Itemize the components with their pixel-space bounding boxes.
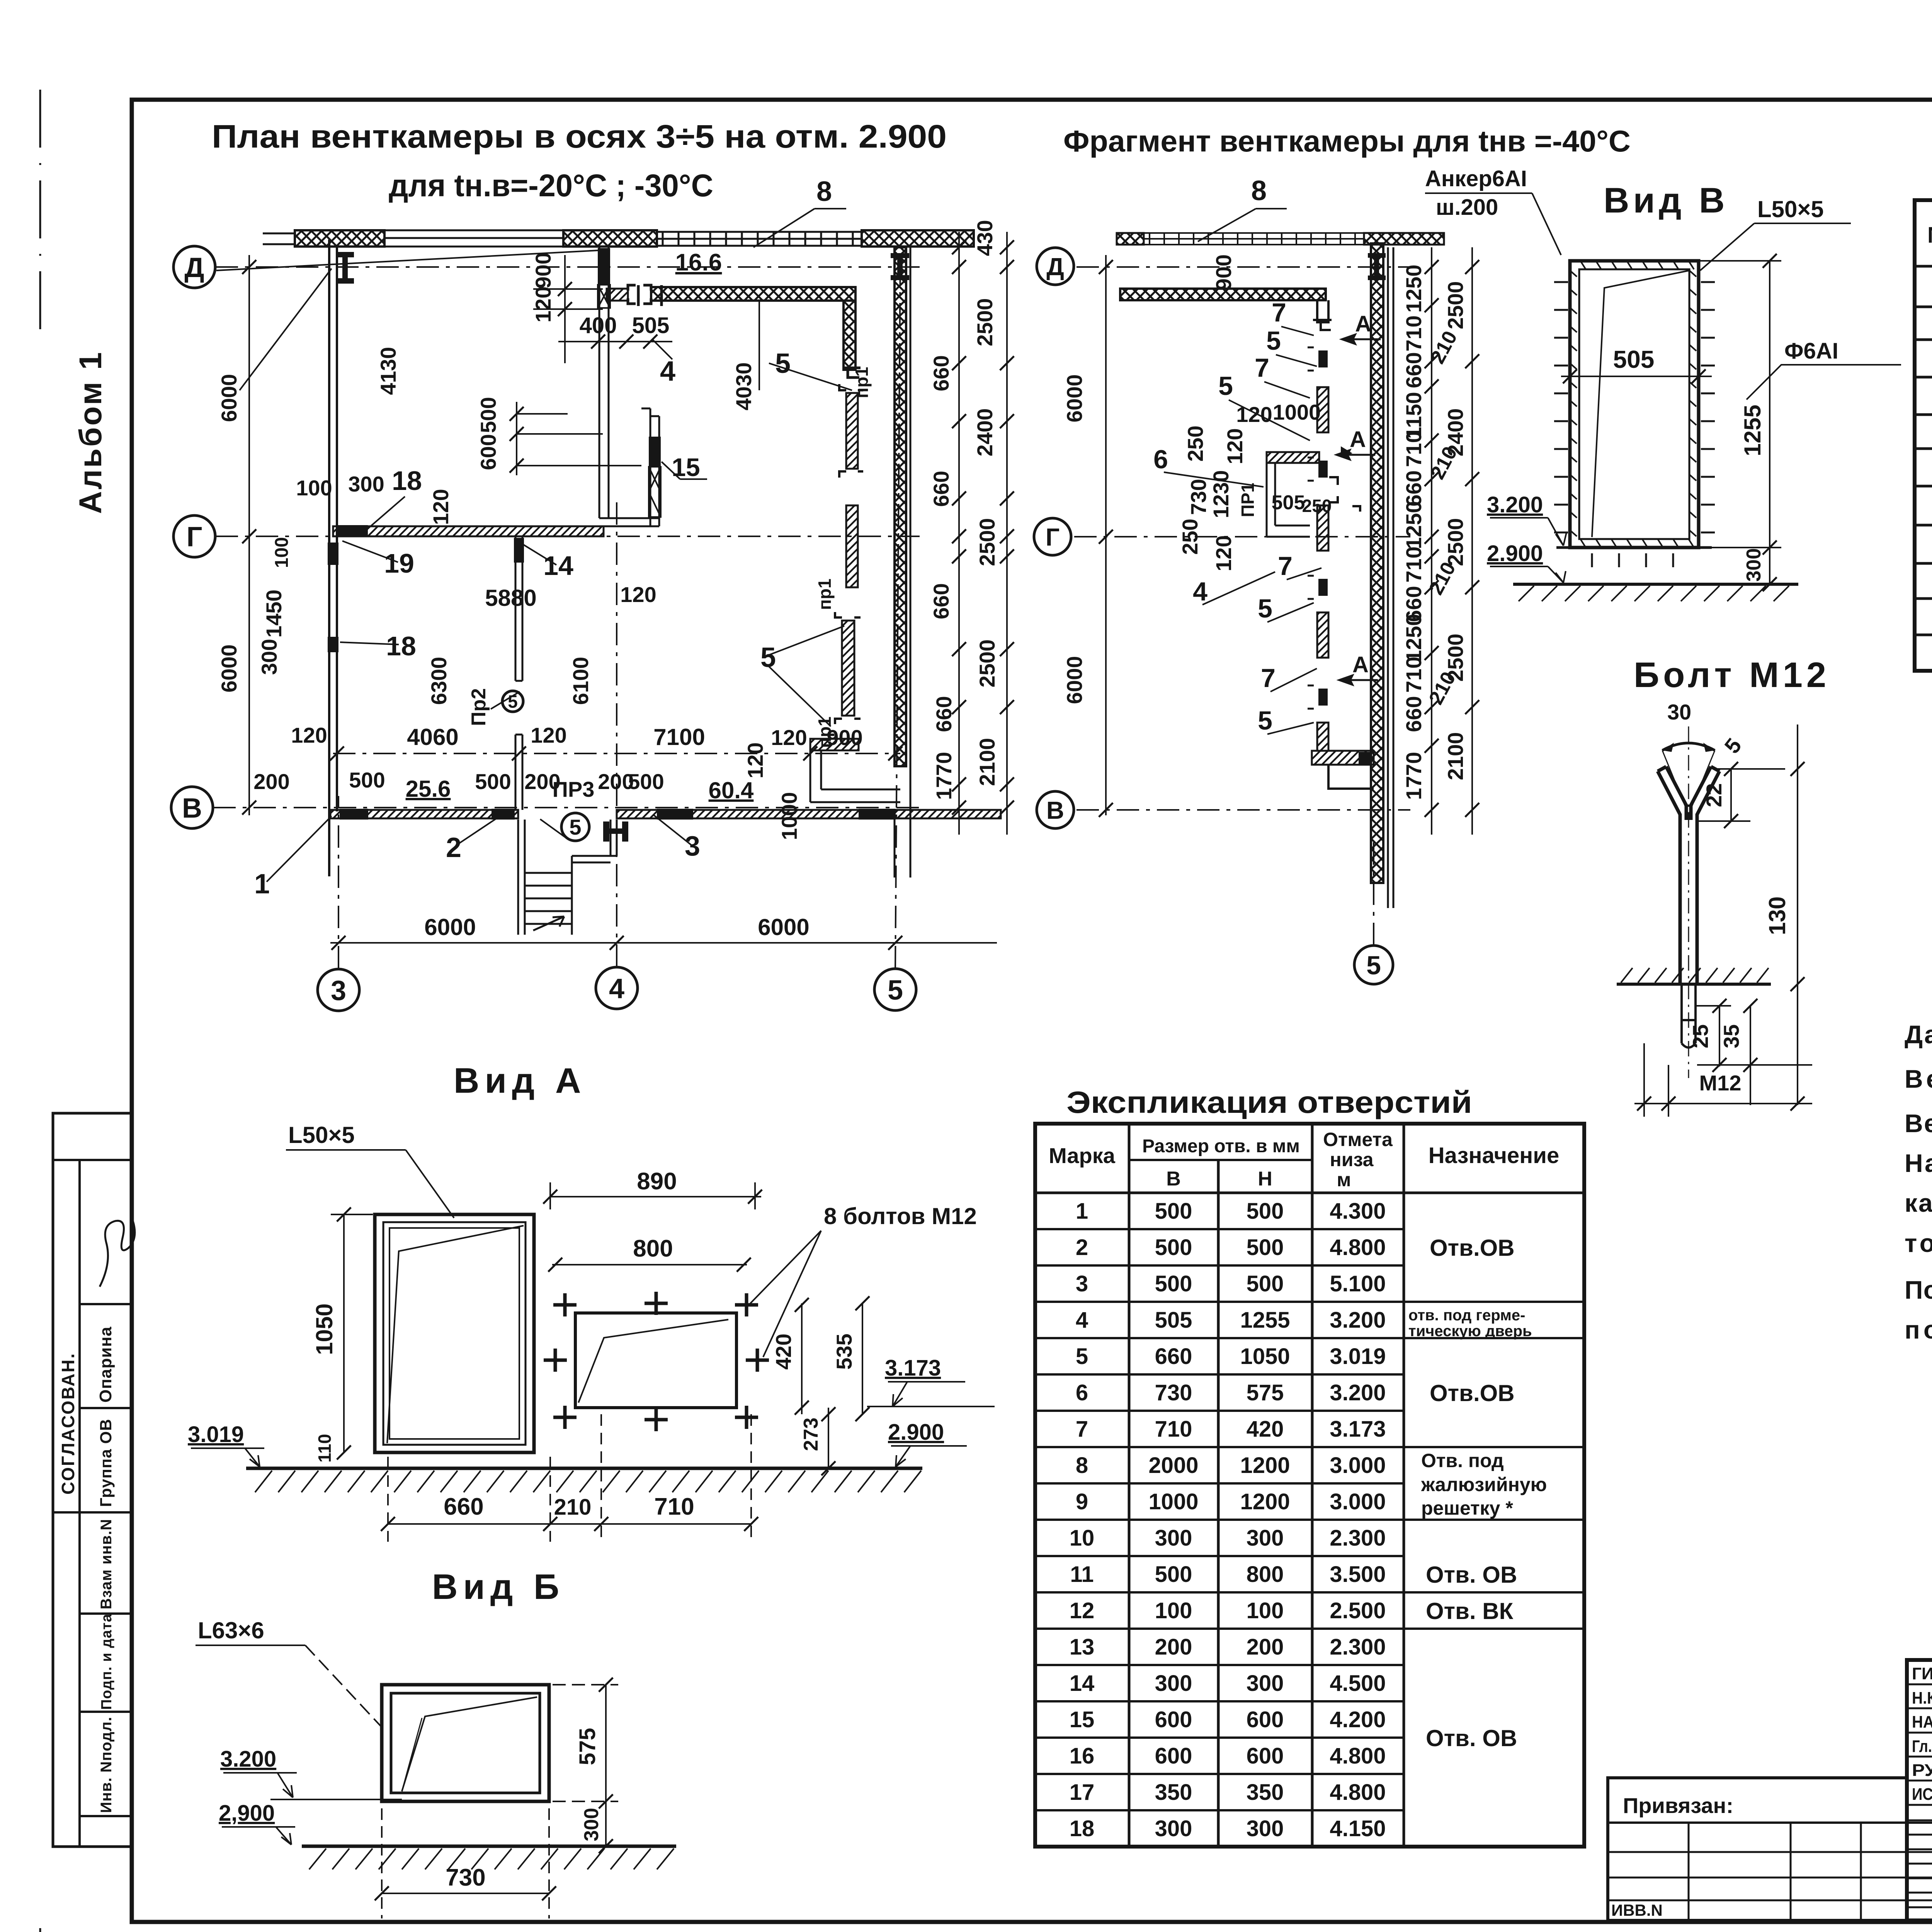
svg-text:890: 890	[637, 1168, 677, 1195]
svg-text:Отв.ОВ: Отв.ОВ	[1430, 1235, 1515, 1261]
axis circle 4	[596, 967, 638, 1009]
svg-text:пр1: пр1	[815, 578, 835, 610]
stairs	[518, 820, 617, 935]
svg-text:500: 500	[475, 769, 511, 794]
top wall louver opening 8	[657, 232, 862, 246]
svg-text:430: 430	[973, 220, 997, 256]
vid B frame	[382, 1685, 549, 1801]
axis circle 5	[874, 969, 916, 1010]
svg-text:РУК ГР.: РУК ГР.	[1912, 1761, 1932, 1780]
svg-text:НАЧ.ОТД: НАЧ.ОТД	[1912, 1713, 1932, 1731]
svg-text:Анкер6АI: Анкер6АI	[1425, 166, 1527, 191]
svg-text:7: 7	[1261, 663, 1276, 693]
svg-text:200: 200	[253, 769, 289, 794]
svg-text:300: 300	[580, 1808, 603, 1842]
svg-text:6000: 6000	[1062, 374, 1087, 423]
svg-text:6000: 6000	[217, 374, 241, 422]
svg-text:35: 35	[1719, 1024, 1743, 1048]
svg-text:1000: 1000	[1273, 400, 1321, 424]
svg-text:7: 7	[1076, 1417, 1088, 1442]
free pier P2	[846, 505, 858, 587]
svg-text:1255: 1255	[1240, 1308, 1290, 1333]
svg-text:120: 120	[531, 723, 566, 747]
frag axis circles	[1037, 248, 1074, 285]
svg-text:Н.КОНТР.: Н.КОНТР.	[1912, 1689, 1932, 1708]
svg-text:Данный лист см. совместно с ли: Данный лист см. совместно с листом 4.	[1905, 1020, 1932, 1049]
svg-text:Отв.ОВ: Отв.ОВ	[1430, 1380, 1515, 1406]
svg-text:3.019: 3.019	[1330, 1344, 1386, 1369]
interior vertical wall W1	[599, 247, 609, 518]
frag right exterior wall	[1371, 243, 1383, 883]
svg-text:Подп. и дата: Подп. и дата	[99, 1614, 115, 1710]
svg-text:3.200: 3.200	[1330, 1380, 1386, 1405]
door jamb bracket right of 505 opening	[643, 285, 662, 306]
svg-text:120: 120	[743, 742, 767, 778]
svg-text:120: 120	[1211, 535, 1236, 571]
frag interior top wall	[1120, 289, 1326, 300]
svg-text:2400: 2400	[973, 408, 997, 457]
vid V 505 dim	[1561, 376, 1712, 377]
svg-text:Ведомость перемычек см. лист 3: Ведомость перемычек см. лист 3.	[1905, 1109, 1932, 1138]
vid B dims 575/300	[605, 1685, 607, 1846]
svg-text:1250: 1250	[1401, 501, 1426, 549]
free pier P1	[846, 393, 858, 469]
svg-text:5: 5	[569, 815, 581, 839]
svg-text:по сетке.: по сетке.	[1905, 1315, 1932, 1344]
svg-text:3: 3	[685, 831, 700, 862]
svg-text:710: 710	[1155, 1417, 1192, 1442]
vid A right dims 420/535/273	[802, 1303, 862, 1468]
vid A ground line	[246, 1467, 922, 1470]
svg-text:3.000: 3.000	[1330, 1489, 1386, 1514]
svg-text:решетку *: решетку *	[1421, 1497, 1513, 1519]
bolt centerline	[1688, 726, 1689, 1078]
interior room top wall (16.6 room)	[651, 287, 855, 301]
svg-text:600: 600	[1155, 1707, 1192, 1732]
svg-text:660: 660	[929, 355, 953, 391]
svg-text:5: 5	[1258, 706, 1272, 735]
vid V 1255 dim	[1769, 261, 1770, 548]
svg-text:Отв. ОВ: Отв. ОВ	[1426, 1725, 1517, 1751]
axis circle G	[173, 515, 215, 557]
svg-text:Размер отв. в мм: Размер отв. в мм	[1142, 1136, 1300, 1156]
svg-text:660: 660	[444, 1493, 483, 1520]
vid V door diagonal	[1592, 270, 1689, 537]
svg-text:16.6: 16.6	[675, 249, 722, 276]
frag mid piers	[1317, 387, 1328, 432]
svg-text:600: 600	[1155, 1743, 1192, 1769]
svg-text:ИВВ.N: ИВВ.N	[1611, 1901, 1663, 1919]
bottom wall on axis V	[330, 810, 518, 818]
svg-text:420: 420	[1247, 1417, 1284, 1442]
small circled 5 markers	[502, 691, 523, 712]
axis circle D	[173, 246, 215, 288]
svg-text:350: 350	[1155, 1780, 1192, 1805]
left wall pier blacks	[328, 543, 338, 652]
svg-text:8: 8	[1076, 1453, 1088, 1478]
svg-text:2100: 2100	[1443, 732, 1468, 781]
svg-text:18: 18	[1070, 1816, 1095, 1841]
svg-text:120: 120	[620, 582, 656, 607]
svg-text:800: 800	[633, 1235, 673, 1262]
svg-text:ках устраиваются из арматурной: ках устраиваются из арматурной стали 10А…	[1905, 1189, 1932, 1217]
svg-text:Взам инв.N: Взам инв.N	[98, 1519, 115, 1609]
svg-text:4: 4	[1076, 1308, 1088, 1333]
svg-text:ш.200: ш.200	[1436, 195, 1498, 220]
vid A big frame	[375, 1214, 534, 1452]
svg-text:1: 1	[1076, 1199, 1088, 1224]
svg-text:отв. под герме-: отв. под герме-	[1408, 1307, 1525, 1324]
frag small lintel squares	[1318, 350, 1328, 367]
vid V 300 dim	[1770, 584, 1797, 585]
interior wall on axis G	[333, 526, 604, 536]
bottom dim line 6000/6000	[330, 942, 997, 944]
vid B diagonal	[402, 1697, 537, 1791]
svg-text:5: 5	[1366, 951, 1381, 980]
svg-text:600: 600	[1247, 1743, 1284, 1769]
svg-text:120: 120	[531, 286, 555, 322]
axis D line	[216, 266, 920, 268]
vid V ground	[1513, 583, 1798, 586]
svg-text:1050: 1050	[1240, 1344, 1290, 1369]
svg-text:2500: 2500	[973, 298, 997, 347]
axis 5 line	[895, 255, 900, 968]
frag axis 5 vertical	[1373, 842, 1374, 945]
svg-text:3.200: 3.200	[1330, 1308, 1386, 1333]
svg-text:5: 5	[1076, 1344, 1088, 1369]
svg-text:710: 710	[1401, 431, 1426, 467]
svg-text:Отв. ВК: Отв. ВК	[1426, 1598, 1514, 1624]
svg-text:ПР3: ПР3	[553, 777, 595, 801]
svg-text:Марка: Марка	[1049, 1143, 1116, 1168]
svg-text:4.150: 4.150	[1330, 1816, 1386, 1841]
svg-text:7100: 7100	[653, 724, 705, 750]
svg-text:Вид В: Вид В	[1604, 181, 1728, 220]
svg-text:3.200: 3.200	[1487, 492, 1543, 517]
svg-text:200: 200	[1155, 1634, 1192, 1660]
svg-text:для tн.в=-20°C ; -30°C: для tн.в=-20°C ; -30°C	[389, 168, 713, 203]
svg-text:2.300: 2.300	[1330, 1634, 1386, 1660]
svg-text:710: 710	[1401, 546, 1426, 582]
svg-text:В: В	[1166, 1168, 1181, 1190]
svg-text:4.800: 4.800	[1330, 1235, 1386, 1260]
svg-text:120: 120	[291, 723, 327, 747]
svg-text:1200: 1200	[1240, 1489, 1290, 1514]
svg-text:Назначение: Назначение	[1429, 1143, 1559, 1168]
svg-text:Группа ОВ: Группа ОВ	[97, 1419, 115, 1507]
7100 dim dash line	[333, 753, 900, 754]
svg-text:Вид А: Вид А	[454, 1061, 586, 1100]
svg-text:300: 300	[1247, 1671, 1284, 1696]
svg-text:2: 2	[1076, 1235, 1088, 1260]
svg-text:500: 500	[1155, 1199, 1192, 1224]
privyazan box	[1608, 1778, 1932, 1920]
W2 wall with pier 15	[641, 408, 659, 526]
svg-text:8: 8	[816, 176, 832, 207]
svg-text:4.800: 4.800	[1330, 1743, 1386, 1769]
svg-text:200: 200	[1247, 1634, 1284, 1660]
svg-text:6000: 6000	[424, 914, 476, 940]
svg-text:575: 575	[575, 1728, 600, 1765]
svg-text:ГИП: ГИП	[1912, 1664, 1932, 1683]
vid A small diagonal	[578, 1320, 728, 1403]
svg-text:6300: 6300	[427, 657, 451, 705]
svg-text:6100: 6100	[568, 657, 593, 705]
svg-text:L50×5: L50×5	[1757, 196, 1824, 222]
svg-text:1770: 1770	[1401, 752, 1426, 800]
svg-text:6000: 6000	[758, 914, 809, 940]
svg-text:1: 1	[254, 869, 270, 900]
svg-text:500: 500	[1247, 1235, 1284, 1260]
svg-text:710: 710	[1401, 656, 1426, 692]
sidebar signature	[100, 1221, 135, 1287]
svg-text:17: 17	[1070, 1780, 1095, 1805]
svg-text:1000: 1000	[1148, 1489, 1198, 1514]
svg-text:5: 5	[1218, 371, 1233, 401]
svg-text:ПР1: ПР1	[1238, 483, 1258, 517]
axis circle 3	[318, 969, 359, 1011]
svg-text:2500: 2500	[975, 518, 999, 566]
svg-text:250: 250	[1178, 519, 1202, 554]
room right return wall	[844, 301, 855, 370]
wall below door PR2	[515, 735, 522, 810]
svg-text:15: 15	[1070, 1707, 1095, 1732]
svg-text:273: 273	[800, 1418, 822, 1451]
svg-text:120: 120	[771, 725, 807, 750]
svg-text:А: А	[1352, 652, 1369, 677]
svg-text:Альбом 1: Альбом 1	[73, 351, 108, 514]
svg-text:3: 3	[331, 975, 346, 1006]
frag left dim line	[1105, 255, 1107, 815]
svg-text:600: 600	[476, 434, 500, 470]
svg-text:5880: 5880	[485, 585, 536, 611]
svg-text:5: 5	[760, 642, 776, 673]
svg-text:Болт М12: Болт М12	[1634, 655, 1830, 695]
svg-text:L50×5: L50×5	[288, 1122, 355, 1148]
svg-text:М12: М12	[1699, 1071, 1742, 1095]
G-level jog connecting W1-W2	[599, 518, 659, 526]
top exterior wall crosshatched right segment	[862, 230, 974, 247]
svg-text:В: В	[1046, 796, 1064, 824]
frag axis V	[1077, 809, 1410, 811]
svg-text:Д: Д	[1046, 253, 1064, 281]
vid A bottom dims 660/210/710	[388, 1523, 751, 1525]
vid V anchor ticks	[1554, 281, 1568, 283]
svg-text:300: 300	[1247, 1526, 1284, 1551]
vid V inner frame	[1579, 269, 1689, 539]
svg-text:505: 505	[632, 313, 670, 338]
svg-text:5: 5	[1266, 326, 1281, 355]
svg-text:Д: Д	[184, 252, 204, 283]
axis 4 line	[616, 502, 617, 967]
svg-text:120: 120	[1223, 428, 1247, 464]
500/600 dim short lines	[517, 402, 641, 475]
svg-text:2.500: 2.500	[1330, 1598, 1386, 1623]
svg-text:2500: 2500	[1443, 518, 1468, 566]
svg-text:250: 250	[1302, 496, 1332, 516]
svg-text:22: 22	[1702, 783, 1726, 807]
svg-text:4: 4	[660, 356, 675, 387]
svg-text:Ф6АI: Ф6АI	[1784, 338, 1838, 364]
threshold H symbol near PR3	[603, 821, 628, 842]
svg-text:900: 900	[531, 252, 555, 288]
svg-text:210: 210	[554, 1495, 592, 1520]
svg-text:1000: 1000	[777, 792, 801, 840]
svg-text:3: 3	[1076, 1271, 1088, 1296]
svg-text:2100: 2100	[975, 738, 999, 786]
svg-text:110: 110	[315, 1434, 335, 1463]
svg-text:Опарина: Опарина	[96, 1327, 115, 1403]
frag axis D	[1077, 266, 1410, 268]
bolt below ground shank	[1682, 985, 1696, 1048]
top wall left thin extension	[263, 233, 295, 244]
leader lines	[216, 209, 852, 882]
frag bottom wall	[1312, 751, 1374, 765]
column I-symbol at D axis	[336, 252, 354, 284]
svg-text:500: 500	[476, 397, 500, 433]
svg-text:3.173: 3.173	[885, 1355, 941, 1381]
svg-text:тическую дверь: тическую дверь	[1408, 1323, 1532, 1340]
svg-text:1230: 1230	[1209, 470, 1233, 519]
svg-text:11: 11	[1070, 1562, 1094, 1587]
svg-text:500: 500	[1155, 1271, 1192, 1296]
svg-text:575: 575	[1247, 1380, 1284, 1405]
axis G line	[216, 536, 920, 537]
svg-text:505: 505	[1272, 492, 1305, 514]
svg-text:300: 300	[1155, 1816, 1192, 1841]
svg-text:8: 8	[1251, 175, 1267, 206]
svg-text:30: 30	[1667, 700, 1691, 724]
svg-text:6000: 6000	[1062, 656, 1087, 704]
svg-text:505: 505	[1155, 1308, 1192, 1333]
frag right dim lines	[1432, 247, 1472, 835]
top exterior wall crosshatched left segment	[295, 230, 384, 247]
svg-text:2,900: 2,900	[219, 1801, 275, 1826]
vid A small frame	[575, 1313, 736, 1408]
svg-text:жалюзийную: жалюзийную	[1421, 1474, 1547, 1495]
frag leader lines	[1164, 327, 1321, 734]
svg-text:6: 6	[1076, 1380, 1088, 1405]
svg-text:10: 10	[1070, 1526, 1095, 1551]
svg-text:Г: Г	[187, 522, 202, 553]
svg-text:1200: 1200	[1240, 1453, 1290, 1478]
top wall thin middle segment	[384, 230, 563, 247]
svg-text:535: 535	[832, 1333, 856, 1369]
svg-text:660: 660	[1401, 696, 1426, 732]
svg-text:Пр2: Пр2	[468, 688, 490, 726]
svg-text:3.500: 3.500	[1330, 1562, 1386, 1587]
svg-text:100: 100	[296, 476, 332, 500]
svg-text:300: 300	[1743, 548, 1765, 582]
svg-text:Над проемами меньше 600 мм в к: Над проемами меньше 600 мм в кирпичных п…	[1905, 1149, 1932, 1177]
svg-text:Г: Г	[1046, 523, 1060, 551]
svg-text:Инв. Nподл.: Инв. Nподл.	[98, 1716, 115, 1813]
svg-text:2.900: 2.900	[1487, 541, 1543, 566]
svg-text:100: 100	[1155, 1598, 1192, 1623]
svg-text:730: 730	[1155, 1380, 1192, 1405]
svg-text:400: 400	[580, 313, 617, 338]
svg-text:500: 500	[1247, 1199, 1284, 1224]
vid V base and anchors	[1556, 546, 1712, 549]
svg-text:19: 19	[384, 548, 414, 578]
svg-text:5.100: 5.100	[1330, 1271, 1386, 1296]
left margin stamp boxes	[53, 1113, 132, 1847]
svg-text:18: 18	[392, 466, 422, 496]
svg-text:8 болтов М12: 8 болтов М12	[824, 1203, 977, 1229]
axis 3 line	[338, 796, 339, 968]
svg-text:м: м	[1337, 1169, 1351, 1190]
svg-text:7: 7	[1255, 353, 1269, 383]
svg-text:2500: 2500	[975, 639, 999, 688]
svg-text:1050: 1050	[311, 1303, 337, 1355]
svg-text:16: 16	[1070, 1743, 1095, 1769]
svg-text:1250: 1250	[1401, 265, 1426, 313]
top wall crosshatch mid segment	[563, 230, 657, 247]
bottom wall piers	[340, 809, 896, 820]
svg-text:300: 300	[257, 639, 281, 675]
svg-text:25.6: 25.6	[406, 776, 451, 802]
vid B ground	[302, 1845, 676, 1848]
svg-text:7: 7	[1272, 298, 1286, 327]
svg-text:350: 350	[1247, 1780, 1284, 1805]
vid B dim 730	[382, 1893, 549, 1894]
frag axis G	[1074, 536, 1410, 537]
svg-text:660: 660	[1401, 352, 1426, 388]
svg-text:Отв. под: Отв. под	[1421, 1450, 1504, 1471]
svg-text:900: 900	[1211, 254, 1236, 290]
svg-text:4.300: 4.300	[1330, 1199, 1386, 1224]
svg-text:4.200: 4.200	[1330, 1707, 1386, 1732]
frag top wall	[1117, 233, 1144, 245]
svg-text:4.500: 4.500	[1330, 1671, 1386, 1696]
svg-text:2500: 2500	[1443, 281, 1468, 330]
svg-text:130: 130	[1764, 896, 1790, 935]
svg-text:4: 4	[609, 973, 624, 1004]
svg-text:730: 730	[446, 1864, 485, 1891]
svg-text:4.800: 4.800	[1330, 1780, 1386, 1805]
svg-text:120: 120	[429, 489, 453, 525]
left vertical dim line 6000/6000	[248, 255, 250, 815]
svg-text:низа: низа	[1330, 1149, 1374, 1170]
svg-text:9: 9	[1076, 1489, 1088, 1514]
svg-text:6: 6	[1153, 445, 1168, 474]
svg-text:800: 800	[1247, 1562, 1284, 1587]
left edge dash-dot crop line	[23, 90, 93, 1932]
svg-text:3.000: 3.000	[1330, 1453, 1386, 1478]
svg-text:300: 300	[1247, 1816, 1284, 1841]
svg-text:1250: 1250	[1401, 614, 1426, 662]
bolt Y body	[1658, 771, 1719, 985]
W1 top pier black	[598, 248, 610, 285]
right dim lines of main plan	[959, 232, 1007, 835]
svg-text:505: 505	[1613, 345, 1655, 373]
svg-text:L63×6: L63×6	[198, 1617, 264, 1643]
svg-text:После укладки утеплителя стены: После укладки утеплителя стены оштукатур…	[1905, 1276, 1932, 1304]
svg-text:4130: 4130	[376, 347, 400, 395]
svg-text:2.300: 2.300	[1330, 1526, 1386, 1551]
svg-text:420: 420	[771, 1333, 796, 1369]
4060 dim line	[333, 736, 519, 736]
svg-text:Отмета: Отмета	[1323, 1129, 1393, 1150]
svg-text:ИСПОЛН.: ИСПОЛН.	[1912, 1785, 1932, 1804]
svg-text:План венткамеры в осях 3÷5: План венткамеры в осях 3÷5 на отм. 2.900	[212, 118, 947, 155]
svg-text:14: 14	[543, 551, 573, 581]
svg-text:710: 710	[1401, 315, 1426, 351]
frag lintel bracket pairs near detail	[1329, 477, 1360, 512]
vid A door diagonal	[387, 1226, 524, 1443]
svg-text:660: 660	[929, 583, 953, 619]
svg-text:2: 2	[446, 832, 461, 863]
